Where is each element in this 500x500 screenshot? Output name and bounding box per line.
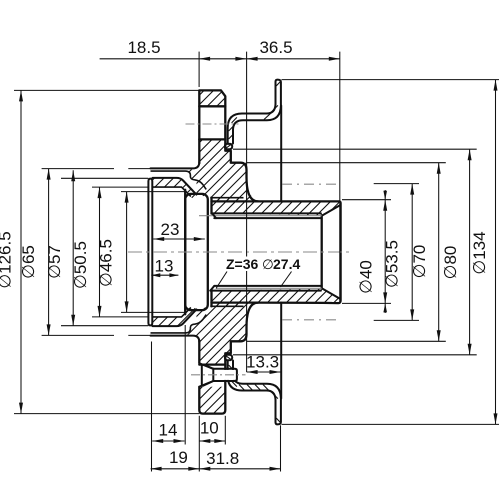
dimension 13 cap width	[151, 256, 178, 277]
hub cup wall sliver bottom	[153, 306, 197, 326]
hidden spline max bottom	[282, 319, 341, 321]
flange foot end bottom	[225, 355, 232, 360]
svg-text:∅50.5: ∅50.5	[71, 241, 90, 289]
plate right face to seat bottom	[225, 303, 258, 365]
sleeve wall bottom fill	[212, 289, 341, 307]
svg-text:31.8: 31.8	[206, 449, 239, 468]
dimension diam 134	[282, 80, 500, 425]
svg-text:∅53.5: ∅53.5	[383, 240, 402, 288]
svg-text:23: 23	[161, 220, 180, 239]
sleeve wall top fill	[212, 198, 341, 216]
hub flange bottom edge fill	[199, 387, 225, 414]
stamped flange bottom strip	[276, 400, 281, 425]
sleeve left end face top	[210, 198, 212, 214]
cap skirt line top	[153, 178, 197, 195]
strip-to-band bend top	[228, 104, 276, 144]
dimension 31.8 width	[199, 449, 280, 471]
svg-text:10: 10	[200, 419, 219, 438]
svg-text:18.5: 18.5	[127, 38, 160, 57]
hub step contour bottom	[151, 315, 207, 333]
rivet countersink	[199, 363, 213, 369]
spline lines bottom	[210, 290, 321, 292]
dimension diam 40	[342, 190, 391, 313]
spline lines top	[212, 212, 321, 214]
sleeve outer top line	[212, 201, 341, 303]
dimension diam 57	[45, 170, 75, 325]
dimension diam 46.5	[97, 192, 186, 313]
svg-text:19: 19	[169, 448, 188, 467]
bearing column right edge	[184, 190, 186, 314]
hub step contour top	[151, 171, 207, 189]
dimension 10 width	[199, 419, 225, 444]
dimension 36.5 width	[247, 38, 340, 61]
flange silhouette edge top	[280, 106, 282, 202]
svg-text:13: 13	[155, 256, 174, 275]
hub bore line top	[210, 197, 243, 199]
cap top edge leader	[61, 177, 148, 179]
stamped flange hatch bottom	[226, 356, 280, 423]
hub body lower section fill	[186, 303, 258, 365]
dimension diam 53.5	[374, 184, 419, 321]
svg-text:13.3: 13.3	[246, 353, 279, 372]
spline bore end face	[321, 215, 323, 288]
dimension diam 70	[247, 163, 446, 342]
hub flange plate bottom outline	[199, 365, 225, 414]
dimension 19 width	[151, 448, 200, 471]
extension lines	[152, 52, 340, 472]
svg-text:∅134: ∅134	[470, 231, 489, 274]
plate right face to seat	[225, 139, 258, 201]
stamped flange top strip	[276, 80, 281, 105]
bore interior white	[214, 218, 322, 286]
svg-text:∅40: ∅40	[357, 260, 376, 294]
flange silhouette edge bottom	[280, 303, 282, 399]
strip-to-band bend bottom	[228, 361, 276, 401]
svg-text:36.5: 36.5	[259, 38, 292, 57]
plate face to phi65 surface top	[151, 162, 200, 168]
hub flange lower part fill	[199, 363, 225, 365]
phi50.5 surface bottom	[153, 308, 191, 317]
cap skirt line bottom	[153, 309, 197, 326]
plate face to phi65 surface bottom	[151, 336, 200, 342]
rivet hole white	[199, 363, 213, 386]
svg-text:∅70: ∅70	[410, 245, 429, 279]
svg-text:∅46.5: ∅46.5	[97, 239, 116, 287]
rivet centerline	[191, 374, 246, 376]
svg-text:∅65: ∅65	[19, 245, 38, 279]
svg-text:∅57: ∅57	[45, 245, 64, 279]
dimension diam 65	[19, 169, 151, 336]
hub flange plate bottom left face	[198, 341, 200, 363]
flare diag bottom	[323, 289, 340, 299]
svg-text:∅80: ∅80	[441, 246, 460, 280]
hub flange top edge (hatched)	[199, 90, 225, 106]
phi50.5 surface top	[153, 187, 191, 196]
svg-text:14: 14	[159, 420, 178, 439]
dimension 23 bearing width	[153, 220, 205, 241]
stud hole centerline	[186, 123, 239, 125]
hub body upper section fill	[186, 139, 258, 201]
spline label Z=36 dia27.4	[216, 256, 300, 289]
rivet shank clearance	[215, 370, 236, 380]
bearing cap disc	[148, 179, 152, 326]
stud hole (white)	[197, 106, 228, 139]
main centerline	[128, 251, 351, 253]
flange foot end top	[225, 144, 232, 149]
hub cup wall sliver top	[153, 178, 197, 198]
hidden spline max top	[282, 183, 341, 185]
dimension diam 80	[233, 149, 477, 355]
stamped flange hatch top	[226, 82, 280, 149]
svg-text:∅126.5: ∅126.5	[0, 231, 15, 288]
hub flange plate top outline	[199, 90, 225, 163]
dimension 14 width	[152, 420, 184, 443]
dimension diam 126.5	[0, 90, 199, 413]
svg-text:Z=36: Z=36	[226, 256, 259, 272]
dimension 18.5 width	[100, 38, 247, 61]
bearing ring side view (white column)	[153, 188, 184, 316]
flare diag top	[323, 205, 340, 215]
dimension diam 50.5	[71, 187, 148, 317]
dimension 13.3 offset	[246, 353, 280, 375]
bearing inner race column	[185, 194, 208, 310]
rivet	[202, 365, 214, 386]
svg-text:27.4: 27.4	[273, 256, 300, 272]
